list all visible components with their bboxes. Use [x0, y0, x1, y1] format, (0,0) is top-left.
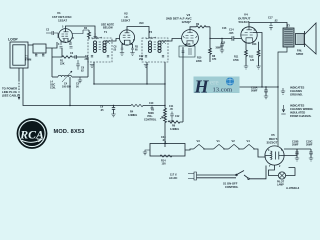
svg-text:12SQ7: 12SQ7 [182, 20, 192, 24]
capacitor C6 [76, 60, 84, 73]
svg-text:LAMP: LAMP [277, 184, 284, 187]
legend chassis ground [281, 86, 305, 97]
power cord [197, 175, 237, 178]
coupling capacitor C14 [210, 29, 241, 41]
svg-text:(SEE CABLE): (SEE CABLE) [2, 94, 20, 98]
svg-text:C17: C17 [268, 17, 273, 20]
V1 pin numbers [58, 26, 71, 47]
svg-text:TRIM: TRIM [25, 58, 31, 62]
electrolytic C18B [292, 140, 299, 161]
capacitor C7 T1 label [85, 55, 90, 61]
svg-text:30MF: 30MF [216, 48, 222, 50]
power line antenna text [2, 87, 20, 98]
svg-text:FROM CHASSIS.: FROM CHASSIS. [290, 114, 312, 118]
wire osc vertical right [87, 57, 89, 77]
svg-text:INDICATES: INDICATES [290, 104, 304, 108]
resistor R10 220K [196, 57, 202, 63]
svg-text:.01: .01 [162, 139, 166, 142]
svg-text:150: 150 [162, 163, 167, 166]
tube V5 35Z5GT rectifier [265, 133, 284, 165]
svg-text:22K: 22K [60, 63, 65, 66]
wire loop bottom dashed antenna lead [18, 68, 20, 100]
heater chain wire [185, 149, 266, 157]
wire V4 plate to T3 [249, 23, 287, 29]
ground R13 [256, 66, 260, 69]
svg-text:AC-DC: AC-DC [169, 176, 177, 180]
capacitor C7 [94, 33, 98, 38]
output transformer T3 [283, 25, 294, 48]
svg-text:C10: C10 [149, 102, 154, 105]
wire C1 to V1 grid [46, 42, 57, 48]
tube pin stubs V1 [60, 40, 70, 43]
svg-text:SPKR: SPKR [296, 52, 303, 56]
svg-text:INDICATES: INDICATES [290, 86, 304, 90]
tube V4 50L6GT output [238, 13, 257, 43]
svg-text:.005: .005 [229, 32, 234, 35]
capacitor C13 box [179, 43, 195, 57]
resistor R8 [209, 39, 217, 63]
svg-text:C16: C16 [222, 27, 227, 30]
IF transformer T2 [142, 30, 168, 62]
svg-text:30MF: 30MF [306, 143, 313, 146]
resistor R4 3.3MEG in AVC bus [128, 104, 143, 117]
heater V3 [194, 139, 205, 150]
svg-text:CONTROL: CONTROL [144, 118, 157, 121]
pilot lamp I1 [269, 165, 296, 186]
junction T1 return [93, 83, 94, 84]
trimmer arrows T2 [162, 40, 166, 44]
power plug 117V [169, 172, 197, 180]
wire V3 plate node down [209, 27, 211, 39]
svg-text:COIL: COIL [50, 87, 56, 90]
svg-text:C15: C15 [221, 43, 226, 45]
capacitor C22 T2 label [139, 55, 144, 61]
wire osc to AVC bus [69, 77, 71, 106]
svg-text:V2: V2 [232, 139, 236, 143]
wire T1 bottom return [93, 62, 95, 84]
oscillator grid line R1 C3 [52, 52, 88, 66]
switch S1 [223, 166, 266, 189]
tube V2 12SK7 IF amplifier [119, 12, 134, 46]
V5 pin numbers [268, 149, 283, 168]
resistor R2 screen [72, 27, 90, 39]
heater V4 [244, 139, 255, 150]
svg-text:CONTROL: CONTROL [225, 185, 239, 189]
svg-text:117 V.: 117 V. [170, 173, 177, 177]
svg-text:MOD. 8X53: MOD. 8X53 [54, 129, 85, 135]
svg-text:20MF: 20MF [292, 143, 299, 146]
wire V5 output node [284, 149, 311, 156]
V3 grid return wire [182, 47, 184, 122]
svg-text:CHASSIS WIRING: CHASSIS WIRING [290, 107, 313, 111]
svg-text:R13: R13 [252, 43, 257, 46]
filter capacitor C18A [251, 86, 268, 99]
svg-text:470K: 470K [233, 59, 239, 62]
svg-text:50L6GT: 50L6GT [239, 20, 250, 24]
oscillator coil L4 [50, 71, 88, 90]
svg-text:13.com: 13.com [213, 87, 233, 94]
wire C24 box left ground [143, 150, 150, 155]
ground T1 left [90, 65, 94, 68]
ground R12 [244, 66, 248, 69]
wire T2 primary return [146, 62, 148, 84]
svg-text:3.3MEG: 3.3MEG [170, 128, 179, 131]
svg-text:12SA7: 12SA7 [58, 18, 68, 22]
wire osc vertical left [51, 48, 53, 77]
V2 cathode network [113, 44, 139, 55]
plate resistor R9 [190, 23, 210, 30]
tube pin stubs V4 [244, 41, 254, 44]
svg-text:INSULATED: INSULATED [290, 111, 305, 115]
ground T2 left [144, 65, 148, 68]
B+ wire from T3 [278, 47, 287, 146]
legend insulated ground [281, 104, 312, 119]
svg-text:3.3MEG: 3.3MEG [128, 114, 137, 117]
wire T2 secondary return [164, 62, 166, 106]
IF transformer T1 [88, 23, 114, 63]
tube pin stubs V3 [185, 44, 195, 47]
cathode resistor R12 [233, 42, 247, 66]
heater filter C24 R14 [150, 136, 185, 166]
wire grid branch down [61, 48, 63, 57]
capacitor C17 [222, 17, 278, 31]
loop antenna L1 [8, 38, 28, 69]
tube V3 12SQ7 det-AVC-AF [166, 13, 198, 47]
svg-text:A-97849-3: A-97849-3 [286, 186, 300, 190]
wire T1 secondary to V2 grid [105, 39, 120, 42]
wire V2 plate to T2 [127, 27, 149, 39]
svg-text:T2: T2 [149, 30, 153, 34]
svg-text:250: 250 [85, 58, 90, 61]
svg-text:S1 ON-OFF: S1 ON-OFF [223, 182, 238, 186]
volume control R5 [144, 106, 166, 148]
svg-text:BELOW: BELOW [103, 26, 113, 30]
capacitor C12 [171, 115, 180, 122]
svg-text:LOOP: LOOP [8, 38, 18, 42]
svg-text:V1: V1 [217, 139, 221, 143]
tube pin stubs V2 [122, 43, 132, 46]
ground osc [78, 77, 82, 83]
svg-text:50MF: 50MF [251, 90, 258, 93]
svg-text:220K: 220K [196, 60, 202, 63]
heater V2 [229, 139, 240, 150]
svg-text:CHASSIS: CHASSIS [290, 89, 302, 93]
trimmer arrows T1 [106, 40, 110, 44]
AVC bus C9 R4 [100, 105, 116, 117]
wire V1 plate to T1 [66, 26, 96, 38]
capacitor C15 [220, 38, 226, 53]
tube V1 12SA7 converter [52, 11, 73, 42]
V1 cathode marks [60, 42, 73, 48]
svg-text:120: 120 [250, 59, 255, 62]
svg-text:250: 250 [139, 58, 144, 61]
svg-text:C13: C13 [186, 43, 191, 46]
cathode resistor R13 [249, 42, 260, 66]
svg-text:ere: ere [210, 79, 219, 87]
svg-text:35Z5GT: 35Z5GT [267, 140, 278, 144]
svg-text:H: H [194, 77, 210, 97]
AVC bus wire [70, 105, 165, 107]
resistor R6 3.3MEG [168, 121, 183, 131]
wire loop top to tuning cap [28, 44, 33, 46]
svg-text:GROUND.: GROUND. [290, 93, 303, 97]
svg-text:C12: C12 [175, 115, 180, 118]
svg-text:47K: 47K [212, 58, 217, 61]
heater V1 [214, 139, 225, 150]
RCA logo [17, 118, 48, 149]
AVC return bus [94, 83, 165, 85]
capacitor C11 [169, 105, 174, 118]
B+ bus [210, 86, 278, 88]
svg-text:12SK7: 12SK7 [121, 19, 131, 23]
svg-text:V3: V3 [197, 139, 201, 143]
svg-text:V4: V4 [247, 139, 251, 143]
capacitor C2 [46, 29, 58, 39]
svg-text:.02: .02 [274, 20, 278, 23]
V4 grid pin [242, 29, 256, 32]
wire loop bottom to AVC bus [23, 68, 70, 106]
capacitor C10 [149, 102, 154, 109]
svg-text:.05: .05 [100, 109, 104, 112]
svg-text:T1: T1 [104, 30, 108, 34]
wire T2 secondary to V3 diode [160, 39, 182, 42]
svg-text:AVC: AVC [139, 22, 144, 25]
screen wire V4 to B+ [253, 33, 262, 88]
speaker voice coil [296, 34, 305, 45]
electrolytic C18C [306, 140, 313, 161]
tuning gang C1 box [25, 44, 46, 62]
speaker PM SPKR [296, 23, 316, 56]
watermark [194, 77, 240, 97]
